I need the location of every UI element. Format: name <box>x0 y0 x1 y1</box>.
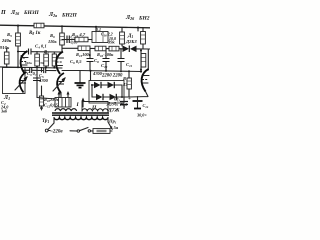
svg-text:4700: 4700 <box>38 78 49 83</box>
wire x122 stub <box>121 28 123 47</box>
node junction x18 mid <box>17 51 19 53</box>
tube Л2б grid dashes <box>142 79 148 81</box>
arrowhead C2 <box>24 76 28 81</box>
wire drop x62 tube2 <box>61 26 63 52</box>
wire bridge right to caps <box>122 96 129 98</box>
wire R17 stubs <box>128 71 130 97</box>
resistor R15 horizontal <box>109 46 119 51</box>
resistor R8 (series in bus) <box>34 23 44 28</box>
node bus at x90.5 <box>90 70 92 72</box>
svg-text:110к: 110к <box>48 39 57 44</box>
svg-text:0,5а: 0,5а <box>110 125 119 130</box>
capacitor plates near tube1 <box>21 81 27 84</box>
svg-text:10,0: 10,0 <box>109 36 116 41</box>
wire stubs resistor row bottoms <box>37 66 54 68</box>
resistor R17 vertical <box>127 78 131 89</box>
resistor R11 vertical x122 <box>120 32 125 44</box>
winding II box <box>82 102 108 112</box>
capacitor C13 electrolytic <box>120 97 128 109</box>
wire mid horizontal to ground <box>62 70 80 72</box>
node junction at x96 on bus <box>95 26 97 28</box>
diode Д3 <box>108 82 115 88</box>
diode Д4 <box>96 94 103 100</box>
resistor R9 vertical x143 <box>141 32 146 45</box>
fuse Пр1 <box>91 129 113 134</box>
svg-text:R8 1к: R8 1к <box>29 31 41 36</box>
variable capacitor C6 arc <box>57 73 64 93</box>
node junction at x62 on bus <box>61 25 63 27</box>
resistor R10 small vertical <box>39 96 43 106</box>
tube Л2а grid dashes <box>57 61 63 63</box>
diode Д5 <box>110 94 117 100</box>
rectifier bridge bottom rail <box>92 96 122 98</box>
diode Д2 <box>94 82 101 88</box>
wire anode row y39.5 <box>62 39 92 41</box>
winding I scallops <box>55 109 77 111</box>
winding II scalloped bottom <box>82 109 108 112</box>
bridge right vertical <box>121 85 123 97</box>
wire drop x41.5 <box>41 68 43 97</box>
svg-text:П: П <box>0 10 6 16</box>
capacitor C5 plates <box>33 78 41 81</box>
tube Л1б grid dashes <box>21 61 27 63</box>
tube Л2б envelope arc <box>142 69 149 92</box>
wire top supply bus <box>0 25 150 28</box>
node junction x141 y71.5 <box>140 70 142 72</box>
svg-text:Л2а: Л2а <box>48 12 57 18</box>
capacitor C11 <box>118 49 125 70</box>
tube Л2б cathode <box>143 82 148 84</box>
wire left mid horizontal <box>18 51 62 54</box>
svg-text:910к: 910к <box>0 45 10 50</box>
wire x138 drop <box>137 28 139 31</box>
diode Д1b left-pointing <box>130 46 137 53</box>
svg-text:3вб: 3вб <box>0 109 8 114</box>
wire x143 stubs <box>142 28 144 49</box>
bridge left vertical <box>91 85 93 97</box>
arrowhead C6 <box>62 77 66 82</box>
tube Л2б anode bar <box>143 75 149 77</box>
variable capacitor C6 arrow <box>53 78 65 91</box>
resistor vertical third <box>52 54 56 66</box>
ground symbol center <box>75 71 86 88</box>
wire right vertical x141 <box>140 49 142 72</box>
wire stub left resistor <box>6 49 8 67</box>
resistor left edge vertical <box>4 52 9 64</box>
rectifier bridge top rail <box>92 84 122 86</box>
svg-text:БН2П: БН2П <box>61 13 78 19</box>
wire mains to switch <box>48 130 77 133</box>
resistor R12 horizontal <box>95 46 106 51</box>
wire caps top rail <box>129 92 148 98</box>
resistor vertical right B <box>141 54 146 68</box>
wire lower mid bus right <box>80 71 141 72</box>
node junction at x18 on bus <box>17 25 19 27</box>
svg-text:2200 2200: 2200 2200 <box>101 74 123 79</box>
wire detector bus y48 <box>62 47 150 50</box>
rectifier unit box <box>89 81 124 104</box>
resistor R9 vertical in x62 drop <box>60 33 65 45</box>
svg-text:Л2б: Л2б <box>125 15 135 21</box>
wire left lower bus <box>0 67 62 68</box>
tube Л1б anode bar <box>22 57 28 59</box>
svg-text:+: + <box>128 97 131 102</box>
filament winding box III <box>55 98 71 108</box>
resistor R13 horizontal <box>78 46 90 51</box>
svg-text:30,0×: 30,0× <box>136 113 147 118</box>
terminal circle left <box>45 129 48 132</box>
wire drop x18 <box>17 26 19 33</box>
svg-text:БН2: БН2 <box>138 16 150 22</box>
node junctions lower bus <box>17 66 19 68</box>
wire x96 drop from bus <box>95 27 97 32</box>
capacitor plates near tube2 <box>59 82 65 85</box>
wire bus to bridge left <box>90 71 92 81</box>
capacitor C8 <box>87 48 94 70</box>
node junctions lower right bus <box>105 70 107 72</box>
diode Д1a right-pointing <box>123 46 130 53</box>
tube Л1б cathode <box>22 64 27 66</box>
svg-text:Л1: Л1 <box>3 95 10 101</box>
capacitor series in AVC line A <box>30 68 32 73</box>
resistor R14 horizontal <box>75 37 88 42</box>
node bridge corners <box>91 84 93 86</box>
heater lead arrow x83 <box>82 98 85 108</box>
svg-text:4700: 4700 <box>92 71 103 76</box>
capacitor C14 electrolytic T-symbol <box>133 97 143 109</box>
capacitor C4 series plates <box>29 49 32 55</box>
variable capacitor C2 arc <box>20 72 27 93</box>
switch В1 <box>77 128 90 133</box>
node junction at x138 on bus <box>137 27 139 29</box>
wire stubs resistor row tops <box>37 52 54 54</box>
primary leads down <box>48 118 112 130</box>
wire C6 arc to transformer <box>60 93 62 98</box>
svg-text:~220в: ~220в <box>50 130 63 135</box>
wire right edge x148 <box>147 49 149 70</box>
resistor R5 vertical <box>16 33 21 46</box>
svg-text:БН3П: БН3П <box>23 10 40 16</box>
svg-text:240к: 240к <box>1 38 12 43</box>
capacitor C10 <box>103 49 110 70</box>
wire R5 to mid bus <box>17 46 19 67</box>
capacitor series in AVC line B <box>44 68 46 73</box>
svg-text:Л1б: Л1б <box>10 10 20 16</box>
resistor R6 vertical <box>35 54 40 66</box>
tube Л2а anode bar <box>58 57 64 59</box>
node junctions on x141 wire <box>140 50 142 52</box>
wire x37 to winding <box>37 98 55 100</box>
node junction below R10 <box>40 107 43 110</box>
wire arrows up from winding III <box>58 91 70 98</box>
svg-text:Д2Б3: Д2Б3 <box>125 39 137 44</box>
wire AVC line below bus <box>24 69 56 71</box>
primary winding scallops <box>54 118 108 120</box>
variable capacitor C2 arrow <box>15 77 27 90</box>
svg-text:Тр1: Тр1 <box>42 119 49 124</box>
tube Л2а envelope arc <box>56 52 63 75</box>
svg-text:Д7Ж: Д7Ж <box>107 108 121 114</box>
tube Л1б envelope arc <box>21 51 28 74</box>
wire drop x37 from lower bus <box>36 67 38 97</box>
capacitor C7 plates <box>67 36 69 44</box>
svg-text:20,0: 20,0 <box>119 102 128 107</box>
tube Л2а cathode <box>58 65 63 67</box>
antenna coil box L1 <box>3 68 26 94</box>
transformer core lines <box>52 113 109 115</box>
IF transformer box <box>92 32 108 43</box>
resistor R7 vertical <box>44 54 49 66</box>
